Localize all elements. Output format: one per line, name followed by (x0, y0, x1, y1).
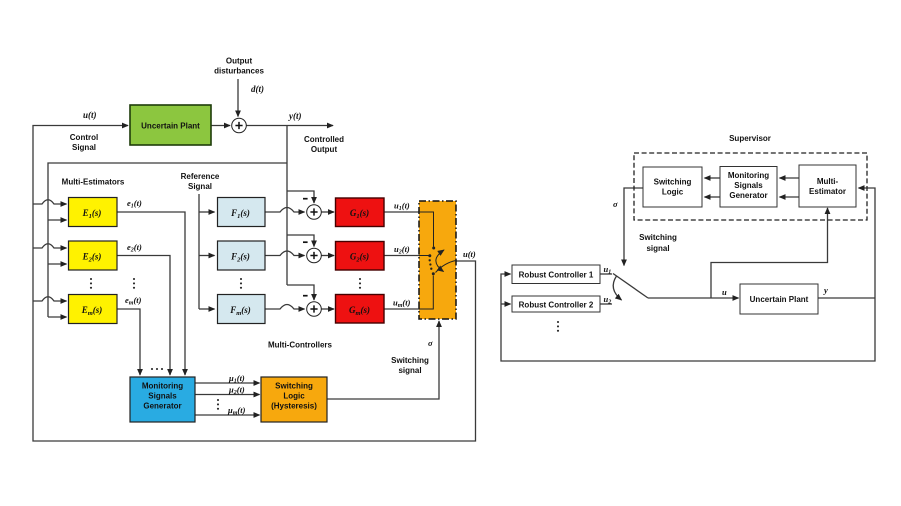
svg-text:d(t): d(t) (251, 84, 264, 94)
wire: monitoring generator to switching logic (lower) (705, 196, 721, 198)
wire: y to Em lower input (48, 316, 67, 318)
svg-text:u1(t): u1(t) (394, 201, 410, 213)
wire: summer 2 to G2 (322, 255, 335, 257)
wire: e2 from E2 down to monitoring generator (117, 256, 170, 376)
svg-text:Switching: Switching (391, 356, 429, 365)
wire: robust controller 1 output u1 (600, 273, 612, 275)
vertical dots between e2 and em labels (133, 278, 135, 280)
svg-text:u2(t): u2(t) (394, 244, 410, 256)
svg-text:e2(t): e2(t) (127, 242, 142, 254)
switch internal wiring: u2 contact (419, 255, 429, 257)
switch box (orange, dash-dot) (419, 201, 456, 319)
wire: em from Em down to monitoring generator (117, 309, 140, 375)
svg-text:μ2(t): μ2(t) (228, 385, 245, 397)
switch motion arc (613, 276, 621, 300)
block: Robust Controller 1 (512, 265, 600, 284)
wire: reference to Fm (199, 308, 215, 310)
wire: y branch to left inner vertical (48, 163, 287, 317)
summer 2 (307, 248, 322, 263)
wire: u to E2 upper input with hop (33, 244, 67, 248)
wire: y to E1 lower input (48, 219, 67, 221)
svg-text:u(t): u(t) (83, 110, 97, 120)
svg-text:Signals: Signals (148, 392, 177, 401)
svg-text:Robust Controller 1: Robust Controller 1 (519, 271, 594, 280)
svg-text:signal: signal (646, 244, 669, 253)
filter F2 (218, 241, 266, 270)
wire: plant output to summer (211, 125, 230, 127)
svg-text:signal: signal (398, 366, 421, 375)
svg-text:Monitoring: Monitoring (142, 382, 183, 391)
svg-text:Controlled: Controlled (304, 135, 344, 144)
svg-text:y: y (823, 285, 828, 295)
block: Uncertain Plant (right diagram) (740, 284, 818, 314)
svg-text:σ: σ (428, 338, 433, 348)
wire: summer 3 to Gm (322, 308, 335, 310)
svg-text:Switching: Switching (639, 233, 677, 242)
svg-text:Monitoring: Monitoring (728, 171, 769, 180)
vertical dots between G2 and Gm (359, 278, 361, 280)
block: Robust Controller 2 (512, 296, 600, 312)
svg-text:Uncertain Plant: Uncertain Plant (141, 122, 200, 131)
svg-text:μ1(t): μ1(t) (228, 373, 245, 385)
wire: Gm output um(t) into switch box (384, 308, 419, 310)
wire: summer to controlled output y(t) (247, 125, 334, 127)
minus sign summer 1 (303, 198, 308, 200)
block: Multi-Estimator (799, 165, 856, 207)
wire: y up to multi-estimator right input (859, 188, 876, 298)
wire: F2 output to summer 2 with hop (265, 251, 305, 256)
estimator Em (69, 295, 118, 324)
wire: u to E1 upper input with hop over y line (33, 200, 67, 204)
switch contact dots (429, 259, 431, 261)
svg-text:Generator: Generator (143, 402, 181, 411)
svg-text:Robust Controller 2: Robust Controller 2 (519, 301, 594, 310)
wire: mu1 monitoring to switching logic (195, 382, 260, 384)
summer 3 (307, 302, 322, 317)
wire: y negative input to summer 2 (287, 235, 314, 247)
switch swing arc with double arrows (436, 250, 444, 272)
wire: u branch up to multi-estimator (711, 208, 828, 298)
svg-text:Supervisor: Supervisor (729, 134, 771, 143)
wire: mum monitoring to switching logic (195, 414, 260, 416)
svg-text:Output: Output (311, 145, 338, 154)
wire: output disturbance d(t) into summer (237, 79, 239, 117)
svg-text:Logic: Logic (662, 188, 684, 197)
svg-text:Control: Control (70, 133, 98, 142)
svg-text:y(t): y(t) (288, 111, 302, 121)
wire: supervisor multi-estimator to monitoring generator (upper) (780, 177, 800, 179)
switch internal wiring: um contact (419, 276, 433, 310)
vertical dots between F2 and Fm (240, 278, 242, 280)
svg-text:em(t): em(t) (125, 295, 142, 307)
svg-text:disturbances: disturbances (214, 67, 264, 76)
wire: summer 1 to G1 (322, 211, 335, 213)
svg-text:μm(t): μm(t) (227, 405, 246, 417)
svg-text:um(t): um(t) (393, 298, 411, 310)
svg-text:Generator: Generator (729, 191, 767, 200)
wire: u feedback loop (switch output, right side, bottom, left side, to plant) (33, 126, 476, 442)
svg-text:Estimator: Estimator (809, 187, 846, 196)
svg-text:(Hysteresis): (Hysteresis) (271, 402, 317, 411)
minus sign summer 2 (303, 241, 308, 243)
wire: reference signal vertical (198, 194, 200, 309)
svg-text:Uncertain Plant: Uncertain Plant (750, 295, 809, 304)
wire: y to E2 lower input (48, 263, 67, 265)
vertical dots between E2 and Em (90, 278, 92, 280)
switch wiper from output (436, 261, 457, 273)
block: Switching Logic (Hysteresis) (261, 377, 327, 422)
wire: monitoring generator to switching logic (upper) (705, 177, 721, 179)
wire: y feedback vertical at x=287 (286, 126, 288, 286)
wire: Fm output to summer 3 with hop (265, 305, 305, 310)
wire: sigma switching logic to switch box (327, 321, 439, 399)
wire: reference to F2 (199, 255, 215, 257)
svg-text:u1: u1 (604, 264, 612, 276)
filter F1 (218, 198, 266, 227)
svg-text:Multi-Controllers: Multi-Controllers (268, 341, 333, 350)
switch internal wiring: u1 contact (419, 212, 456, 309)
wire: e1 from E1 down to monitoring generator (117, 212, 185, 375)
block: Monitoring Signals Generator (left diagram) (130, 377, 195, 422)
supervisor dashed box (634, 153, 867, 220)
controller G1 (336, 198, 385, 227)
svg-text:Multi-Estimators: Multi-Estimators (62, 178, 125, 187)
svg-text:e1(t): e1(t) (127, 198, 142, 210)
switch arm (right diagram) (613, 274, 648, 299)
svg-text:Switching: Switching (275, 382, 313, 391)
block: Switching Logic (right diagram) (643, 167, 702, 207)
svg-text:Multi-: Multi- (817, 177, 839, 186)
svg-text:u(t): u(t) (463, 249, 476, 259)
summer 1 (tracking error) (307, 205, 322, 220)
wire: u to Em upper input with hop (33, 297, 67, 301)
wire: y negative input to summer 3 (287, 285, 314, 300)
wire: F1 output to summer 1 with hop over y vertical (265, 208, 305, 213)
wire: supervisor multi-estimator to monitoring generator (lower) (780, 196, 800, 198)
block: Uncertain Plant (left diagram) (130, 105, 211, 145)
svg-text:Signals: Signals (734, 181, 763, 190)
svg-text:Switching: Switching (654, 178, 692, 187)
vertical dots before mum wire (217, 399, 219, 401)
svg-text:σ: σ (613, 199, 618, 209)
wire: G1 output u1(t) into switch box (384, 211, 419, 213)
wire: y feedback bottom loop to controllers (501, 274, 875, 361)
wire: robust controller 2 output u2 (600, 303, 612, 305)
svg-text:u2: u2 (604, 294, 612, 306)
horizontal dots left of monitoring inputs (151, 368, 153, 370)
wire: sigma from switching logic down to switch (624, 188, 643, 266)
svg-text:Signal: Signal (188, 182, 212, 191)
vertical dots below robust controller 2 (557, 321, 559, 323)
wire: switch to uncertain plant (648, 297, 739, 299)
block: Monitoring Signals Generator (right diagram) (720, 167, 777, 208)
svg-text:Reference: Reference (181, 172, 220, 181)
estimator E1 (69, 198, 118, 227)
svg-text:Output: Output (226, 57, 253, 66)
svg-text:Signal: Signal (72, 143, 96, 152)
wire: y negative input to summer 1 (287, 191, 314, 203)
svg-text:u: u (722, 287, 727, 297)
wire: plant output y to right vertical (818, 297, 875, 299)
filter Fm (218, 295, 266, 324)
svg-text:Logic: Logic (283, 392, 305, 401)
wire: feedback branch to robust controller 2 (501, 303, 511, 305)
wire: mu2 monitoring to switching logic (195, 394, 260, 396)
wire: reference to F1 (199, 211, 215, 213)
controller Gm (336, 295, 385, 324)
summer: output disturbance junction (232, 118, 247, 133)
controller G2 (336, 242, 385, 271)
minus sign summer 3 (303, 295, 308, 297)
estimator E2 (69, 241, 118, 270)
wire: G2 output u2(t) into switch box (384, 255, 419, 257)
